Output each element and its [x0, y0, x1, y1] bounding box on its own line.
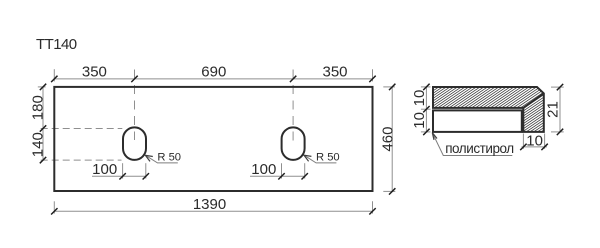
- svg-text:350: 350: [322, 63, 347, 80]
- svg-text:ТТ140: ТТ140: [36, 36, 77, 53]
- svg-text:460: 460: [379, 127, 396, 152]
- svg-text:100: 100: [251, 161, 276, 178]
- svg-text:10: 10: [411, 112, 428, 129]
- svg-text:полистирол: полистирол: [445, 141, 514, 156]
- svg-text:R 50: R 50: [157, 152, 181, 164]
- svg-text:21: 21: [544, 101, 561, 118]
- svg-text:350: 350: [82, 63, 107, 80]
- svg-text:180: 180: [29, 95, 46, 120]
- svg-text:10: 10: [411, 90, 428, 107]
- svg-text:690: 690: [201, 63, 226, 80]
- svg-text:100: 100: [92, 161, 117, 178]
- svg-text:140: 140: [29, 132, 46, 157]
- svg-text:1390: 1390: [193, 196, 226, 213]
- svg-text:10: 10: [526, 132, 543, 149]
- svg-text:R 50: R 50: [316, 152, 340, 164]
